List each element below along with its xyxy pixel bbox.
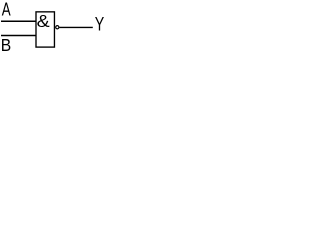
background [0,0,106,58]
nand gate U1 body [36,12,54,47]
svg-text:&: & [37,11,51,31]
svg-text:B: B [1,35,11,55]
svg-text:Y: Y [95,12,105,35]
wire B [1,35,36,37]
nand gate U1 inversion bubble [56,26,59,29]
wire A [1,20,36,22]
svg-text:A: A [2,0,11,20]
output wire [59,26,93,28]
